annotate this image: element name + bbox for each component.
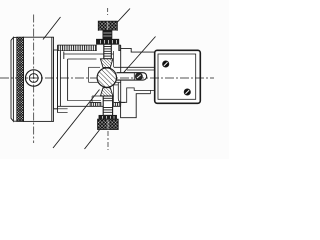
frame top inner ledge 2 [68, 58, 97, 60]
knob hole outer circle [26, 70, 42, 86]
knob hole center dot [33, 77, 35, 79]
rod nut circle [136, 73, 143, 80]
frame inner left wall [67, 59, 69, 101]
frame outer left wall [57, 45, 59, 112]
top screw lower stem [104, 44, 112, 59]
plate inner [158, 54, 196, 99]
rod end cap [143, 73, 147, 80]
frame bottom bar hatch right [114, 103, 121, 107]
frame top bar edge [58, 44, 97, 46]
top screw cup cone [100, 59, 113, 68]
frame bottom left steps [54, 108, 68, 110]
knob body right double line [51, 37, 53, 121]
top screw flange [97, 39, 119, 44]
clevis lower line [114, 84, 118, 86]
frame bottom inner edge [68, 100, 101, 102]
top bracket arm to plate [121, 48, 155, 52]
ball slot top edge [89, 66, 101, 68]
knob hole inner circle [29, 74, 38, 83]
clevis second top line [127, 69, 155, 71]
frame top bar hatch [58, 45, 97, 51]
frame inner wall step [63, 52, 65, 60]
plate screw 1 [163, 61, 169, 67]
frame right wall [120, 45, 122, 72]
frame bottom outer edge [58, 105, 104, 107]
frame bottom boss seat [92, 95, 114, 97]
vertical centerline screws bottom [107, 131, 109, 150]
frame top inner ledge 1 [64, 53, 104, 55]
knob body [24, 37, 54, 121]
bottom screw flange [99, 115, 117, 119]
frame left wall second line [59, 47, 61, 107]
ball [97, 68, 116, 87]
top screw head [98, 21, 117, 30]
plate outer [155, 50, 201, 103]
leader line L2 top screw [117, 9, 130, 23]
top screw upper stem [103, 30, 112, 39]
knob cap [11, 37, 13, 121]
collar [54, 50, 58, 109]
vertical centerline knob [33, 15, 35, 144]
leader line L1 knob [43, 17, 61, 40]
vertical centerline screws top [107, 8, 109, 15]
bottom screw head [98, 119, 119, 129]
knob cap-knurl gap lines [13, 36, 16, 38]
ball slot left edge [88, 67, 90, 82]
bottom screw stem [103, 96, 112, 115]
plate screw 2 [184, 89, 190, 95]
horizontal centerline [0, 77, 214, 79]
knob knurl band [17, 37, 24, 121]
leader line L3 rod nut [124, 37, 156, 73]
frame bottom bar hatch left [90, 103, 101, 107]
ball slot bottom edge [89, 81, 101, 83]
leader line L4 ball [53, 90, 100, 149]
frame lower-right J profile [118, 83, 154, 103]
bottom cup cone [100, 88, 113, 96]
bottom bracket arm foot [121, 94, 151, 118]
frame bottom bar top line [90, 102, 101, 104]
frame right inner wall [113, 51, 115, 67]
leader line L5 bottom screw [85, 130, 100, 149]
rod [117, 72, 144, 74]
